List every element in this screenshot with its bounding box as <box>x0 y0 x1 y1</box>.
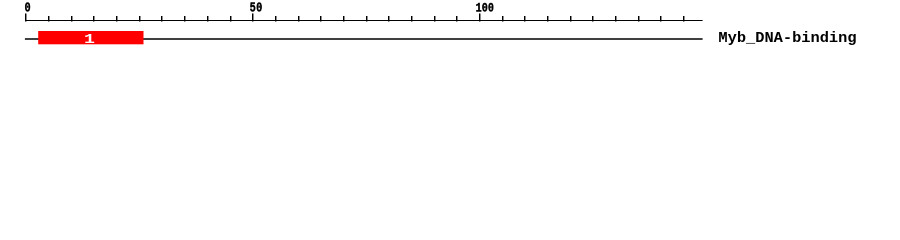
ruler minor tick 120 <box>570 16 571 22</box>
svg-text:100: 100 <box>476 0 494 16</box>
ruler label 50 <box>250 0 263 16</box>
ruler minor tick 130 <box>615 16 616 22</box>
svg-text:50: 50 <box>250 0 263 16</box>
ruler major tick 50 <box>252 13 253 21</box>
ruler minor tick 70 <box>343 16 344 22</box>
ruler minor tick 125 <box>592 16 593 22</box>
ruler major tick 0 <box>25 13 26 21</box>
domain box 1 (Myb_DNA-binding, red) <box>38 31 143 44</box>
ruler minor tick 5 <box>48 16 49 22</box>
ruler minor tick 55 <box>275 16 276 22</box>
ruler minor tick 60 <box>298 16 299 22</box>
ruler minor tick 45 <box>230 16 231 22</box>
svg-text:1: 1 <box>84 31 95 47</box>
domain name label Myb_DNA-binding <box>718 31 856 47</box>
ruler minor tick 30 <box>161 16 162 22</box>
ruler minor tick 75 <box>366 16 367 22</box>
svg-text:0: 0 <box>24 0 30 16</box>
sequence backbone line <box>25 38 703 40</box>
ruler baseline (residues 0-149) <box>25 20 703 21</box>
ruler minor tick 105 <box>502 16 503 22</box>
ruler label 100 <box>476 0 494 16</box>
ruler minor tick 85 <box>411 16 412 22</box>
ruler label 0 <box>24 0 30 16</box>
ruler minor tick 25 <box>139 16 140 22</box>
ruler minor tick 80 <box>388 16 389 22</box>
svg-text:Myb_DNA-binding: Myb_DNA-binding <box>718 31 856 47</box>
ruler minor tick 15 <box>93 16 94 22</box>
ruler major tick 100 <box>479 13 480 21</box>
ruler minor tick 65 <box>320 16 321 22</box>
ruler minor tick 95 <box>456 16 457 22</box>
ruler minor tick 90 <box>434 16 435 22</box>
ruler minor tick 40 <box>207 16 208 22</box>
ruler minor tick 115 <box>547 16 548 22</box>
domain box label 1 (white) <box>84 31 95 47</box>
ruler minor tick 35 <box>184 16 185 22</box>
ruler minor tick 110 <box>524 16 525 22</box>
ruler minor tick 145 <box>683 16 684 22</box>
ruler minor tick 20 <box>116 16 117 22</box>
ruler minor tick 140 <box>660 16 661 22</box>
ruler minor tick 10 <box>71 16 72 22</box>
ruler minor tick 135 <box>638 16 639 22</box>
